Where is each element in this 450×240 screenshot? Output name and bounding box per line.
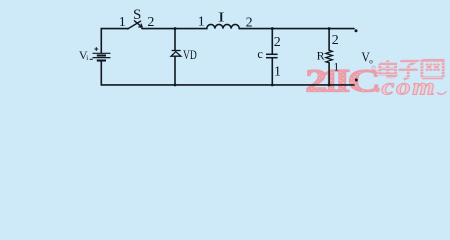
watermark registered mark: [372, 66, 375, 69]
switch S arrowhead: [139, 24, 142, 27]
resistor R zigzag: [326, 50, 332, 63]
wire diode upper stub: [174, 29, 176, 51]
svg-text:C: C: [348, 62, 381, 99]
inductor L coil: [207, 24, 239, 28]
svg-text:1: 1: [119, 15, 126, 30]
svg-text:2: 2: [274, 35, 281, 50]
watermark char wang: [422, 60, 443, 78]
svg-text:1: 1: [333, 60, 339, 74]
svg-text:R: R: [317, 49, 325, 63]
watermark period: [373, 87, 377, 91]
watermark char zi: [399, 61, 418, 79]
battery plus sign: [94, 47, 98, 51]
svg-text:I: I: [218, 9, 225, 25]
wire capacitor lower stub: [271, 58, 273, 85]
junction node capacitor bottom: [271, 83, 274, 86]
svg-text:VD: VD: [183, 47, 197, 62]
watermark scanlines over CJK: [376, 62, 448, 77]
svg-text:c: c: [257, 47, 263, 61]
junction node resistor top: [328, 27, 331, 30]
svg-text:2: 2: [246, 16, 253, 31]
junction node diode top: [174, 27, 177, 30]
watermark char dian: [380, 60, 397, 77]
svg-text:1: 1: [274, 65, 281, 80]
watermark 21IC: [305, 60, 448, 100]
output terminal top dot: [355, 29, 358, 32]
svg-text:2: 2: [332, 33, 339, 48]
svg-text:i: i: [86, 54, 88, 62]
wire capacitor upper stub: [271, 29, 273, 54]
svg-text:2: 2: [147, 15, 154, 30]
output terminal bottom dot: [355, 79, 358, 82]
switch S blade: [128, 21, 142, 29]
svg-text:1: 1: [198, 15, 205, 30]
junction node resistor bottom: [328, 83, 331, 86]
junction node capacitor top: [271, 27, 274, 30]
svg-text:S: S: [133, 7, 141, 23]
svg-text:o: o: [369, 58, 373, 66]
capacitor C plates: [266, 54, 278, 57]
watermark .com period: [375, 87, 380, 92]
svg-text:com: com: [382, 73, 437, 100]
wire battery bottom stub: [100, 61, 102, 85]
wire top: switch to inductor: [142, 28, 207, 30]
battery minus sign: [90, 58, 93, 60]
watermark flourish: [437, 92, 447, 95]
wire top: battery to switch: [101, 29, 128, 53]
diode VD: [171, 51, 181, 57]
wire resistor lower stub: [328, 63, 330, 85]
wire bottom rail: [101, 84, 354, 86]
battery Vi plates: [93, 53, 111, 60]
wire resistor upper stub: [328, 29, 330, 51]
junction node diode bottom: [174, 83, 177, 86]
wire diode lower stub: [174, 56, 176, 85]
wire top: inductor to output terminal: [239, 28, 354, 30]
